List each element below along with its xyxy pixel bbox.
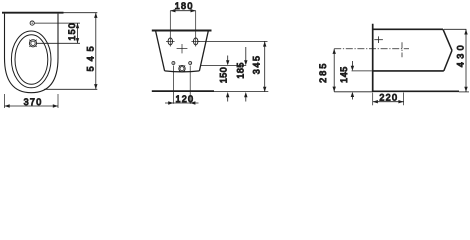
drain centre line horizontal bbox=[334, 48, 409, 50]
svg-text:430: 430 bbox=[456, 42, 466, 67]
body front lower edge bbox=[444, 50, 452, 71]
slot height extension line (345) bbox=[198, 40, 268, 42]
fixing hole right bbox=[189, 62, 192, 65]
tap hole bbox=[30, 21, 34, 25]
body bottom edge bbox=[165, 70, 200, 73]
wall line (front view) bbox=[152, 30, 212, 32]
dimension 150 (tap to drain) line bbox=[77, 23, 79, 43]
body left edge bbox=[156, 31, 165, 71]
extension lines (220) bbox=[372, 93, 374, 106]
dimension 185 line bbox=[245, 47, 247, 62]
svg-text:150: 150 bbox=[67, 22, 77, 41]
floor extension line right (430) bbox=[459, 91, 469, 93]
wall line (side view) bbox=[372, 24, 374, 92]
extension line top (545) bbox=[64, 12, 98, 14]
fixing slot right bbox=[194, 38, 198, 45]
dimension 150 (front) line bbox=[227, 56, 229, 62]
bottom edge extension line (145) bbox=[352, 70, 372, 72]
rim oval bbox=[11, 31, 51, 88]
dimension 545 line bbox=[95, 13, 97, 90]
hole height extension line bbox=[200, 64, 246, 66]
dimension 180 line bbox=[170, 10, 195, 12]
top extension line (430) bbox=[444, 28, 466, 30]
water supply centre mark bbox=[374, 39, 383, 41]
extension lines (120) bbox=[172, 66, 174, 104]
dimension 345 line bbox=[264, 41, 266, 92]
svg-text:285: 285 bbox=[318, 62, 328, 83]
drain outlet (front) bbox=[179, 65, 185, 71]
dimension 120 line bbox=[165, 102, 199, 104]
extension lines (370) bbox=[4, 94, 6, 108]
dimension 145 line bbox=[351, 61, 353, 67]
floor extension line left (285/145) bbox=[334, 91, 372, 93]
svg-text:370: 370 bbox=[24, 97, 43, 107]
floor line (side view) bbox=[372, 90, 459, 92]
extension / centre lines to fixing slots bbox=[169, 11, 171, 47]
drain leader line bbox=[37, 42, 80, 44]
floor line (front view) bbox=[152, 90, 214, 92]
tap hole leader line bbox=[35, 22, 80, 24]
body front upper edge bbox=[443, 29, 452, 50]
fixing hole left bbox=[172, 62, 175, 65]
svg-text:145: 145 bbox=[339, 66, 349, 83]
drain centre mark (front) bbox=[181, 44, 183, 53]
fixture outline (plan silhouette) bbox=[5, 14, 59, 93]
dimension 430 line bbox=[465, 29, 467, 92]
dimension 285 line bbox=[333, 49, 335, 92]
drain centre line vertical bbox=[401, 42, 403, 57]
bowl oval bbox=[15, 35, 48, 85]
svg-text:220: 220 bbox=[379, 93, 398, 103]
floor extension line bbox=[214, 90, 268, 92]
body bottom edge bbox=[374, 70, 444, 72]
dimension 220 line bbox=[373, 101, 404, 103]
wall line (top bar, plan view) bbox=[2, 12, 64, 14]
svg-text:185: 185 bbox=[236, 62, 246, 79]
svg-text:545: 545 bbox=[85, 41, 95, 71]
extension line bottom (545) bbox=[44, 88, 97, 90]
svg-text:345: 345 bbox=[252, 54, 262, 74]
fixing slot left bbox=[168, 38, 172, 45]
svg-text:150: 150 bbox=[219, 67, 229, 83]
dimension 370 line bbox=[5, 105, 59, 107]
svg-text:120: 120 bbox=[175, 94, 194, 104]
drain fitting (plan) bbox=[29, 40, 36, 47]
body right edge bbox=[199, 31, 208, 71]
body top edge bbox=[374, 28, 444, 30]
